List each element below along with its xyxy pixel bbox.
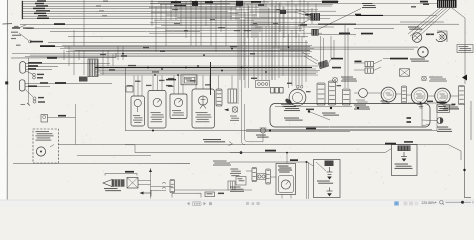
switch box B4 (a/c htr) — [192, 89, 215, 128]
mini terminals — [162, 183, 166, 189]
pill P1 wire labels — [28, 62, 42, 64]
batt label — [55, 82, 66, 84]
zoom slider — [446, 201, 472, 203]
hourmeter small gauge — [359, 89, 368, 98]
comb bar T2 — [266, 169, 271, 184]
wiper pilot lamp — [422, 76, 427, 81]
wiper motor text — [104, 188, 121, 191]
wire 14GR bottom stub — [230, 152, 241, 154]
J4 lead wires — [302, 52, 331, 64]
washer label — [281, 104, 296, 107]
harness bundle (8 feed wires) — [22, 1, 242, 19]
volt meter gauge — [381, 87, 396, 102]
thermo wire — [48, 117, 76, 119]
bottom small box — [205, 192, 215, 197]
label 24OR — [404, 141, 413, 143]
flasher label — [437, 102, 447, 104]
left drop wires — [64, 0, 123, 75]
bottom tag — [218, 193, 224, 195]
left flood text — [317, 181, 333, 184]
mid bundle wire labels — [100, 46, 255, 79]
junction dots on bus — [152, 130, 271, 154]
flood lamp top symbol — [327, 167, 333, 175]
labels above console row — [127, 80, 211, 87]
oil filter warning lamp — [333, 78, 338, 83]
hsw motor dial — [281, 180, 290, 189]
lower border wire — [13, 162, 190, 164]
wiper note text — [429, 77, 447, 82]
cluster texts bottom — [230, 187, 244, 192]
mid harness bundles — [12, 46, 320, 75]
fuse OO — [257, 174, 266, 179]
extra long verticals center — [262, 3, 283, 80]
console riser wire — [125, 68, 127, 131]
wire to cluster — [175, 189, 213, 191]
ground-at-console text — [362, 3, 376, 8]
label 8A-R/B — [306, 128, 316, 130]
dark bus wire — [95, 67, 312, 69]
label 14GR right — [385, 143, 396, 145]
cluster ground text 2 — [381, 101, 390, 104]
oil press gauge — [435, 88, 451, 104]
coolant temp gauge — [411, 88, 427, 104]
defroster motor — [412, 33, 422, 43]
right flood box — [392, 145, 418, 176]
defroster tag — [390, 58, 408, 60]
flasher out wire — [450, 108, 460, 110]
arrow into lamp — [224, 109, 229, 112]
connector pill P2 — [19, 80, 25, 91]
slider end tick — [472, 201, 473, 203]
ante label — [125, 171, 134, 173]
wiper motor body — [112, 179, 125, 186]
upper-left fuse symbols — [11, 26, 21, 46]
arrow on riser — [149, 169, 152, 172]
fan-out wires from fuse comb — [400, 8, 465, 84]
ignition labels — [251, 78, 257, 79]
page edge tick — [3, 23, 13, 25]
oil filter warning text — [341, 77, 357, 82]
right comb col — [459, 86, 465, 105]
connector pill P1 — [20, 62, 26, 74]
pilot lamp bracket — [437, 31, 447, 42]
fuse comb block (top right) — [437, 0, 457, 8]
solenoid text — [284, 106, 300, 111]
mid right riser — [436, 104, 438, 131]
wire from comb H2 — [319, 34, 357, 36]
column labels — [306, 109, 314, 111]
wh-defroster tag — [361, 33, 373, 35]
long wire y24 — [250, 23, 459, 25]
wire weave grid — [149, 0, 452, 80]
main lower bus 9R — [125, 130, 437, 132]
flashing warning lamp — [437, 118, 443, 124]
accessory terminals — [256, 81, 270, 88]
small wire labels in weave — [172, 9, 280, 31]
left arrow connector bottom — [143, 190, 151, 197]
connector comb H1 — [311, 13, 321, 20]
thermo drop wire — [75, 104, 77, 145]
cluster texts left — [230, 169, 241, 177]
connector ladder block — [88, 59, 98, 77]
gauge box B2 (ether aid) — [148, 91, 166, 129]
cluster link wires — [212, 171, 276, 190]
dark emphasis on y24 — [318, 23, 356, 25]
comb bar T1 — [252, 168, 257, 182]
ether stub wire — [50, 145, 54, 148]
thermo sender — [41, 115, 48, 123]
hsw feed wire — [286, 153, 288, 164]
frame ground box — [270, 104, 430, 128]
flashing warning lamp text — [437, 127, 452, 132]
ignition switch — [289, 89, 306, 106]
frame box lower wires — [246, 130, 432, 132]
fuse pair F1 — [26, 71, 35, 79]
right edge riser — [465, 104, 472, 198]
ground 12v text — [203, 139, 225, 142]
hsw header text — [278, 166, 292, 173]
scan speckle noise — [11, 1, 470, 195]
status bar left icons — [246, 202, 260, 205]
wire from comb H1 to right — [320, 14, 437, 16]
right flood text — [395, 164, 413, 169]
flasher feed wire — [408, 102, 436, 104]
cigar lighter label — [166, 79, 176, 81]
aux box B5 — [228, 89, 237, 103]
relay column R2 — [329, 81, 336, 105]
ether cylinder circle — [36, 147, 45, 156]
note box top right — [457, 45, 473, 53]
bp label — [355, 14, 361, 16]
relay box T3 — [236, 177, 246, 186]
connector tag blobs (top row) — [171, 1, 338, 26]
windshield wiper motor — [418, 47, 428, 57]
flasher drop wire — [421, 103, 423, 126]
ground symbol at flasher — [419, 103, 423, 108]
label BB — [407, 121, 412, 123]
pill P2 stub wires — [25, 83, 112, 96]
J4 connector body fill — [319, 61, 328, 69]
hsw inner box — [279, 176, 294, 193]
label 14GR left — [265, 150, 276, 152]
wire across frame box — [275, 106, 352, 108]
status bar gray buttons — [404, 201, 419, 205]
defroster motor text — [408, 27, 422, 30]
flasher texts — [213, 161, 231, 166]
oil filter lamp in box — [357, 107, 359, 109]
panel pilot lamp — [232, 107, 238, 113]
minus glyph — [435, 202, 436, 203]
wire to ground 12v — [125, 145, 135, 153]
defroster hose curve — [436, 32, 447, 42]
left feeder wires — [20, 25, 310, 51]
gauge box B1 (wiper sw) — [131, 96, 145, 126]
signal flasher box — [437, 105, 450, 113]
hsw bottom wires — [282, 195, 291, 199]
label B2 — [452, 104, 456, 105]
page edge marker — [5, 81, 8, 84]
flood box connector — [325, 161, 334, 167]
dark wire segment to defroster — [356, 14, 383, 16]
extra drops to ignition — [254, 14, 299, 86]
wiper motor label — [410, 59, 429, 62]
J4 labels — [331, 58, 343, 60]
wiper feed wires — [272, 47, 418, 49]
onstr label — [426, 34, 434, 36]
wiper motor cone — [103, 180, 112, 187]
vertical feed from batt wire — [28, 58, 30, 104]
ta-gr label — [355, 61, 362, 63]
flasher relay box — [400, 69, 410, 76]
wire 14GR upper — [58, 145, 461, 161]
svg-text:225.88%: 225.88% — [422, 201, 435, 205]
gauge box B3 (lighting sw) — [170, 94, 187, 119]
connector pair J5 — [365, 62, 374, 74]
upper right riser — [470, 101, 472, 140]
connector comb C4 — [216, 89, 222, 106]
diagonal to console ground — [318, 9, 361, 30]
wiper bracket — [105, 174, 137, 176]
ignition top contacts — [297, 86, 303, 89]
dome lamp wires — [242, 104, 264, 145]
right flood lamp symbol — [401, 152, 407, 157]
left page margin — [0, 0, 7, 200]
wiper out wires — [138, 168, 173, 199]
wires to J5 — [354, 60, 382, 71]
magnifier icon — [440, 201, 443, 204]
ether box text — [36, 131, 54, 141]
flashing lamp leads — [422, 120, 434, 126]
connector squares row — [271, 88, 284, 94]
vertical drops to switch cluster — [238, 2, 348, 104]
ether cylinder box — [33, 129, 59, 163]
relay column R3 — [343, 89, 351, 105]
right edge arrow — [462, 75, 467, 81]
label 1A-W — [427, 101, 433, 103]
console bottom edge — [77, 155, 151, 157]
wire 16R — [230, 161, 307, 163]
pill P1 stub wires — [26, 63, 110, 69]
pill P2 wire labels — [28, 85, 37, 87]
junction dots on bundles — [122, 46, 289, 76]
ground at upper frame — [308, 110, 310, 112]
cigar lighter box — [181, 75, 197, 85]
flood lamp bottom symbol — [327, 188, 333, 192]
tiny relay right — [228, 181, 235, 190]
ground stub bottom-left — [21, 103, 31, 106]
wire gauge labels on bundle — [33, 0, 108, 19]
cb box — [126, 86, 133, 92]
relay column R1 — [317, 83, 325, 105]
bottom wire loop — [172, 193, 201, 197]
comb bar small — [170, 180, 175, 193]
drop wires to console row — [134, 76, 232, 97]
comb between gauges — [402, 86, 407, 103]
ground at platform — [330, 107, 332, 109]
wiper connector box — [127, 178, 138, 189]
page edge line — [6, 0, 8, 200]
fuse pair F2 — [33, 97, 36, 103]
left flood box — [314, 160, 341, 198]
feeder wire labels — [12, 23, 65, 59]
small tags left of comb — [420, 1, 428, 3]
status bar blue button — [394, 201, 399, 206]
defroster return wire — [354, 28, 394, 30]
high speed wiper box — [276, 164, 296, 195]
extra weave wires right — [242, 4, 336, 27]
cluster ground text — [443, 105, 459, 110]
right flood connector — [398, 146, 411, 152]
connector J4 — [318, 60, 328, 68]
dome lamp — [260, 128, 267, 133]
dark riser at cigar lighter — [210, 62, 212, 95]
dark blob mid top — [280, 10, 286, 14]
batt switch wire — [11, 53, 116, 58]
label AA — [407, 117, 412, 119]
gauge link wires — [368, 93, 459, 96]
wire 14GR lower — [135, 149, 392, 153]
status bar — [0, 200, 474, 207]
flood feed wires — [307, 162, 327, 199]
pager icons — [187, 202, 212, 206]
connector comb H2 — [312, 29, 319, 36]
comb H1 lead wires — [295, 9, 310, 26]
